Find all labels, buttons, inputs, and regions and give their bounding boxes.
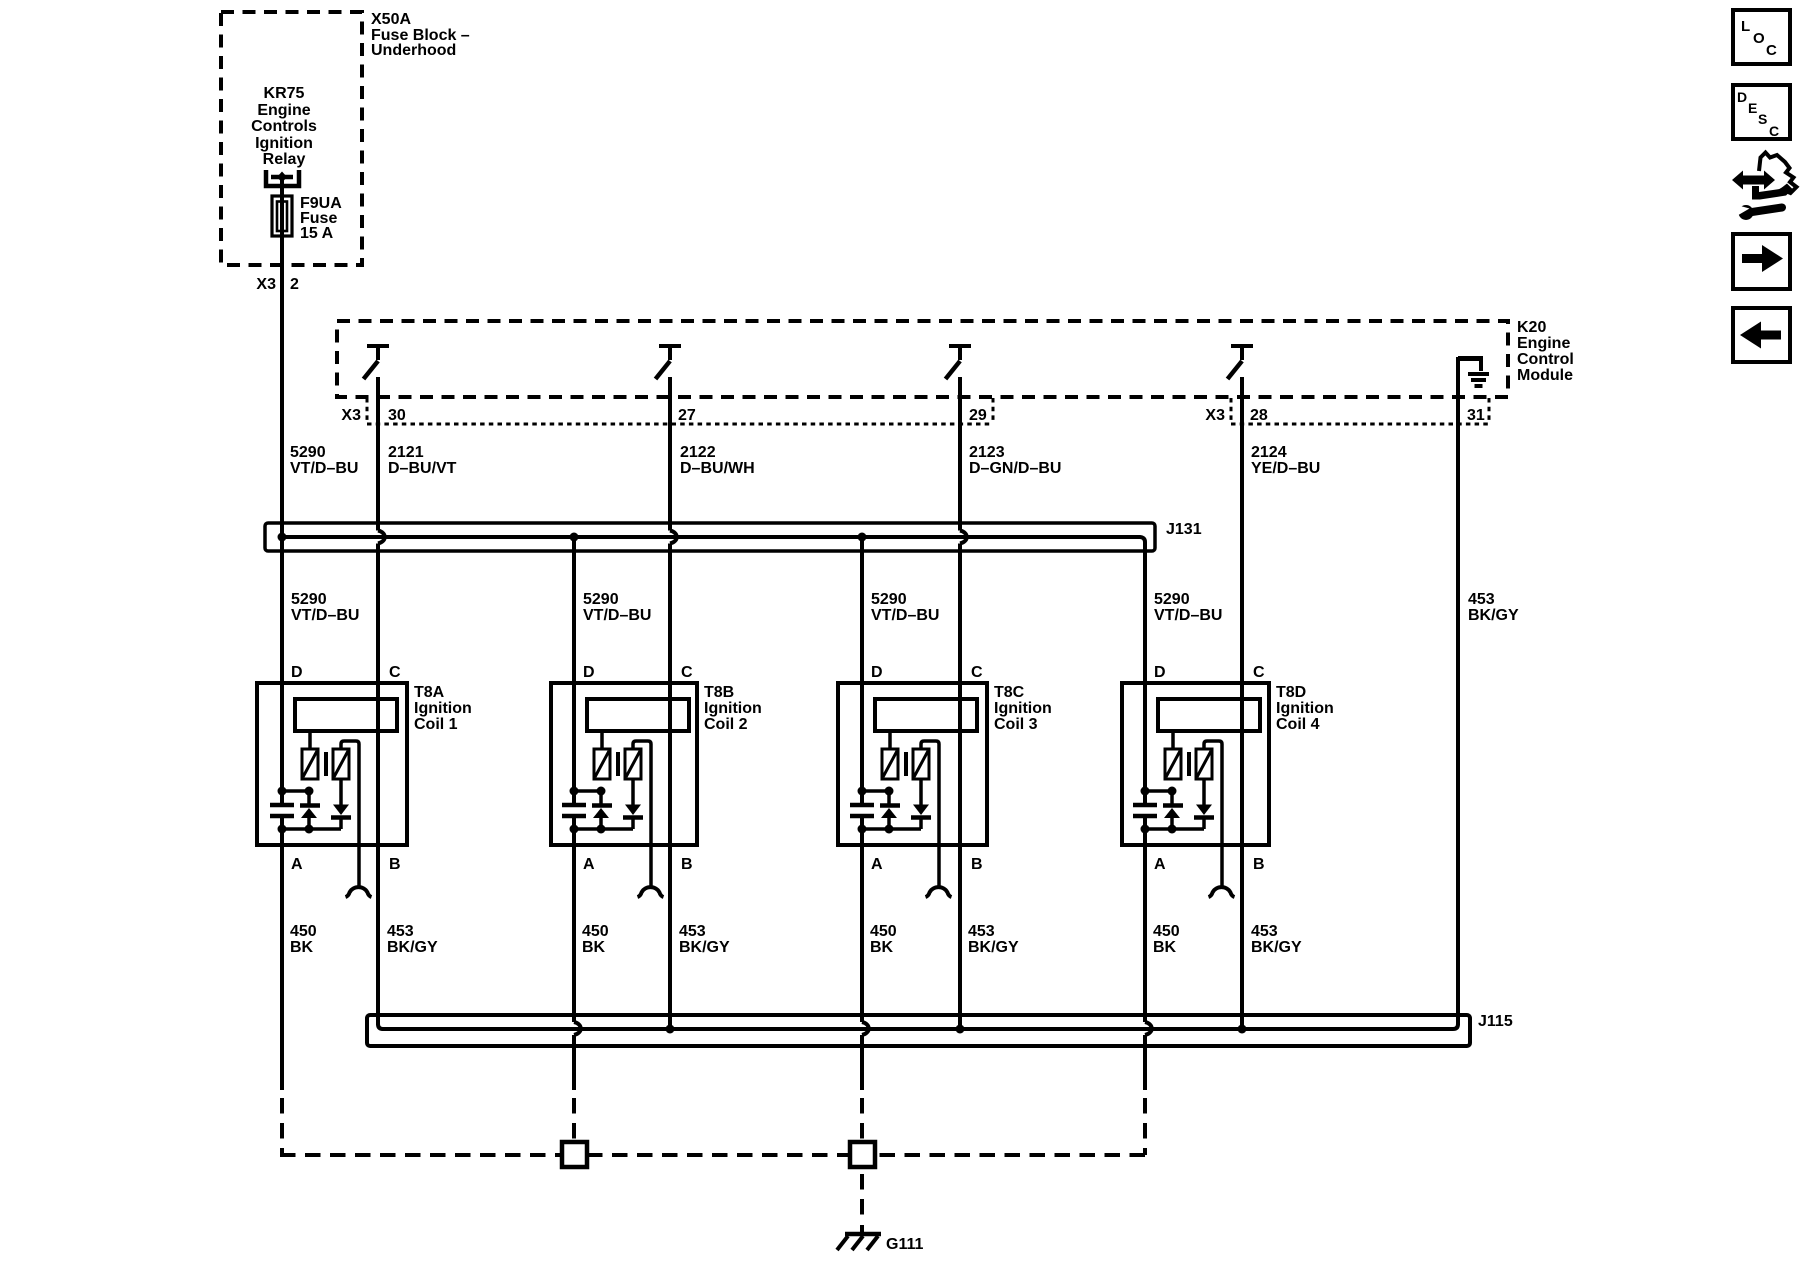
junction block at coil T8C ground rail: [850, 1142, 875, 1167]
svg-text:Module: Module: [1517, 367, 1573, 384]
hop of wire 450 T8C over splice J115: [862, 1022, 869, 1035]
svg-text:450: 450: [870, 923, 897, 940]
svg-text:D–BU/VT: D–BU/VT: [388, 460, 457, 477]
junction dot J115 coil T8B ground: [666, 1025, 675, 1034]
svg-text:S: S: [1758, 111, 1767, 127]
svg-text:B: B: [681, 856, 693, 873]
coil T8A zener diode up: [300, 791, 320, 829]
svg-text:5290: 5290: [1154, 591, 1190, 608]
ignition coil T8A box: [257, 683, 407, 845]
hop of wire 2123 over splice J131: [960, 531, 967, 544]
label T8D Ignition Coil 4: [1276, 684, 1334, 733]
svg-text:2124: 2124: [1251, 444, 1287, 461]
label T8A Ignition Coil 1: [414, 684, 472, 733]
svg-text:453: 453: [679, 923, 706, 940]
svg-text:D: D: [1154, 664, 1166, 681]
coil T8C primary winding block: [875, 699, 977, 731]
svg-text:Ignition: Ignition: [1276, 700, 1334, 717]
coil T8D internal wire primary to resistors: [1171, 731, 1175, 749]
svg-text:T8C: T8C: [994, 684, 1025, 701]
coil T8A resistor right: [333, 749, 349, 779]
junction dot J131 at coil T8B feed: [570, 533, 579, 542]
coil T8A secondary output wire to spark gap: [341, 741, 359, 886]
coil T8B junction dots upper rail: [570, 787, 606, 796]
label 450 BK (coil T8C): [870, 923, 897, 956]
wire 450 BK coil T8D pin A down: [1143, 818, 1147, 1022]
svg-text:Underhood: Underhood: [371, 42, 456, 59]
coil T8D primary winding block: [1158, 699, 1260, 731]
icon button back arrow: [1733, 308, 1790, 362]
coil T8A core bar: [324, 752, 328, 776]
coil T8B junction dots lower rail: [570, 825, 634, 834]
coil T8A diode down: [331, 779, 351, 829]
label 2123 D-GN/D-BU: [969, 444, 1061, 477]
svg-text:Ignition: Ignition: [994, 700, 1052, 717]
label 5290 VT/D-BU (coil feed): [291, 591, 359, 624]
wire 453 BK/GY from ECM pin 31 down to splice J115: [1458, 359, 1481, 1025]
label 450 BK (coil T8A): [290, 923, 317, 956]
ignition coil T8C box: [838, 683, 987, 845]
ECM internal ground at pin 31: [1458, 358, 1489, 386]
svg-text:BK: BK: [582, 939, 606, 956]
svg-text:Ignition: Ignition: [704, 700, 762, 717]
coil T8B diode down: [623, 779, 643, 829]
svg-text:VT/D–BU: VT/D–BU: [871, 607, 939, 624]
svg-text:D: D: [583, 664, 595, 681]
svg-text:A: A: [871, 856, 883, 873]
coil T8D spark plug gap arc: [1209, 887, 1235, 897]
coil T8D diode down: [1194, 779, 1214, 829]
svg-text:B: B: [1253, 856, 1265, 873]
splice J115 bus wire 453 to ECM ground pin 31: [378, 544, 1458, 1030]
svg-text:31: 31: [1467, 407, 1485, 424]
svg-text:27: 27: [678, 407, 696, 424]
svg-text:D: D: [1737, 89, 1747, 105]
svg-text:VT/D–BU: VT/D–BU: [291, 607, 359, 624]
svg-text:X50A: X50A: [371, 11, 411, 28]
coil T8C zener diode up: [880, 791, 900, 829]
splice pack J115 box: [367, 1015, 1470, 1046]
svg-text:A: A: [1154, 856, 1166, 873]
svg-text:X3: X3: [256, 276, 276, 293]
wire 2122 D-BU/WH from ECM pin 27 to coil T8B pin C: [668, 377, 672, 531]
coil T8B internal wire primary to resistors: [600, 731, 604, 749]
svg-text:450: 450: [290, 923, 317, 940]
pin labels X3 30 27 29 X3 28 31: [341, 407, 1484, 424]
label 453 BK/GY (coil T8A): [387, 923, 438, 956]
junction block at coil T8B ground rail: [562, 1142, 587, 1167]
svg-text:2122: 2122: [680, 444, 716, 461]
connector X3 bracket right (pins 28 31): [1231, 398, 1489, 424]
svg-text:VT/D–BU: VT/D–BU: [290, 460, 358, 477]
coil T8C internal wire primary to resistors: [888, 731, 892, 749]
coil T8B resistor right: [625, 749, 641, 779]
svg-text:VT/D–BU: VT/D–BU: [1154, 607, 1222, 624]
coil T8C resistor left: [882, 749, 898, 779]
wire 5290 VT/D-BU splice J131 to coil T8C pin D: [860, 537, 864, 803]
svg-text:Controls: Controls: [251, 118, 317, 135]
svg-text:D–GN/D–BU: D–GN/D–BU: [969, 460, 1061, 477]
ECM driver switch for pin 30: [364, 346, 390, 379]
svg-text:5290: 5290: [871, 591, 907, 608]
svg-text:BK/GY: BK/GY: [387, 939, 438, 956]
svg-text:C: C: [681, 664, 693, 681]
ECM driver switch for pin 27: [656, 346, 682, 379]
ignition coil T8B box: [551, 683, 697, 845]
wire 450 BK coil T8D dashed ground run: [1143, 1098, 1147, 1155]
wire 450 BK coil T8B pin A down: [572, 818, 576, 1022]
svg-text:O: O: [1753, 30, 1765, 47]
svg-text:Relay: Relay: [263, 151, 306, 168]
svg-text:15 A: 15 A: [300, 225, 334, 242]
label X50A Fuse Block - Underhood: [371, 11, 470, 59]
coil T8C capacitor: [850, 805, 874, 816]
ignition coil T8D box: [1122, 683, 1269, 845]
svg-text:Control: Control: [1517, 351, 1574, 368]
svg-text:D: D: [871, 664, 883, 681]
label 5290 VT/D-BU (coil feed): [583, 591, 651, 624]
coil T8C spark plug gap arc: [926, 887, 952, 897]
svg-text:453: 453: [1251, 923, 1278, 940]
svg-text:Coil 4: Coil 4: [1276, 716, 1320, 733]
hop of wire 450 T8D over splice J115: [1145, 1022, 1152, 1035]
svg-text:450: 450: [1153, 923, 1180, 940]
label F9UA Fuse 15 A: [300, 195, 342, 242]
svg-text:T8D: T8D: [1276, 684, 1306, 701]
junction dot J131 at coil T8A feed: [278, 533, 287, 542]
svg-text:J131: J131: [1166, 521, 1202, 538]
svg-text:Engine: Engine: [1517, 335, 1570, 352]
svg-text:30: 30: [388, 407, 406, 424]
wire 5290 VT/D-BU splice J131 to coil T8B pin D: [572, 537, 576, 803]
coil T8A capacitor: [270, 805, 294, 816]
coil T8A junction dots lower rail: [278, 825, 342, 834]
label 5290 VT/D-BU (coil feed): [871, 591, 939, 624]
svg-text:28: 28: [1250, 407, 1268, 424]
dashed ground rail to G111: [280, 1153, 1145, 1157]
coil T8B resistor left: [594, 749, 610, 779]
svg-text:453: 453: [968, 923, 995, 940]
fuse block X50A dashed box: [221, 12, 362, 265]
connector label X3 pin 2 at fuse block: [256, 276, 299, 293]
svg-text:Coil 1: Coil 1: [414, 716, 458, 733]
svg-text:A: A: [291, 856, 303, 873]
svg-text:2123: 2123: [969, 444, 1005, 461]
coil T8D junction dots upper rail: [1141, 787, 1177, 796]
svg-text:C: C: [1769, 123, 1779, 139]
label 453 BK/GY (coil T8D): [1251, 923, 1302, 956]
junction dot J115 coil T8D ground: [1238, 1025, 1247, 1034]
label 453 BK/GY (ECM ground wire): [1468, 591, 1519, 624]
svg-text:5290: 5290: [290, 444, 326, 461]
coil T8D junction dots lower rail: [1141, 825, 1205, 834]
fuse F9UA 15A symbol: [272, 196, 292, 236]
coil T8D resistor left: [1165, 749, 1181, 779]
svg-text:D: D: [291, 664, 303, 681]
svg-text:Coil 2: Coil 2: [704, 716, 748, 733]
label T8B Ignition Coil 2: [704, 684, 762, 733]
svg-text:BK/GY: BK/GY: [679, 939, 730, 956]
label 5290 VT/D-BU (fuse output): [290, 444, 358, 477]
svg-text:K20: K20: [1517, 319, 1546, 336]
svg-text:Engine: Engine: [257, 102, 310, 119]
wire 2124 YE/D-BU from ECM pin 28 to coil T8D pin C: [1240, 377, 1244, 1029]
wire 450 BK coil T8A dashed ground run: [280, 1098, 284, 1155]
svg-text:T8B: T8B: [704, 684, 734, 701]
coil T8B spark plug gap arc: [638, 887, 664, 897]
svg-text:G111: G111: [886, 1236, 923, 1253]
coil T8C core bar: [904, 752, 908, 776]
svg-text:453: 453: [387, 923, 414, 940]
svg-text:2121: 2121: [388, 444, 424, 461]
svg-text:BK: BK: [290, 939, 314, 956]
coil T8A primary winding block: [295, 699, 397, 731]
svg-text:Ignition: Ignition: [255, 135, 313, 152]
svg-text:BK: BK: [870, 939, 894, 956]
coil T8B capacitor: [562, 805, 586, 816]
svg-text:J115: J115: [1478, 1013, 1513, 1030]
svg-text:2: 2: [290, 276, 299, 293]
svg-text:C: C: [1766, 42, 1777, 59]
junction dot J115 coil T8C ground: [956, 1025, 965, 1034]
svg-text:X3: X3: [341, 407, 361, 424]
coil T8C resistor right: [913, 749, 929, 779]
coil T8D zener diode up: [1163, 791, 1183, 829]
relay KR75 contact symbol: [266, 170, 299, 196]
label 453 BK/GY (coil T8B): [679, 923, 730, 956]
label 2121 D-BU/VT: [388, 444, 457, 477]
hop of wire 2121 over splice J131: [378, 531, 385, 544]
wire 450 BK coil T8C pin A down: [860, 818, 864, 1022]
coil T8C diode down: [911, 779, 931, 829]
label 2122 D-BU/WH: [680, 444, 755, 477]
coil T8A internal wire primary to resistors: [308, 731, 312, 749]
label 450 BK (coil T8B): [582, 923, 609, 956]
coil T8B secondary output wire to spark gap: [633, 741, 651, 886]
svg-text:BK: BK: [1153, 939, 1177, 956]
ECM driver switch for pin 28: [1228, 346, 1254, 379]
engine control module K20 dashed box: [337, 321, 1508, 397]
icon button next arrow: [1733, 234, 1790, 289]
coil T8B core bar: [616, 752, 620, 776]
label KR75 Engine Controls Ignition Relay: [251, 85, 317, 168]
svg-text:C: C: [971, 664, 983, 681]
svg-text:5290: 5290: [583, 591, 619, 608]
svg-text:Ignition: Ignition: [414, 700, 472, 717]
svg-text:C: C: [1253, 664, 1265, 681]
svg-text:A: A: [583, 856, 595, 873]
svg-text:BK/GY: BK/GY: [1251, 939, 1302, 956]
hop of wire 450 T8B over splice J115: [574, 1022, 581, 1035]
svg-text:E: E: [1748, 100, 1757, 116]
label 453 BK/GY (coil T8C): [968, 923, 1019, 956]
coil T8C junction dots upper rail: [858, 787, 894, 796]
coil T8C junction dots lower rail: [858, 825, 922, 834]
wire 2121 D-BU/VT from ECM pin 30 to coil T8A pin C: [376, 377, 380, 531]
coil T8A resistor left: [302, 749, 318, 779]
icon swap with wrench: [1732, 153, 1797, 221]
label K20 Engine Control Module: [1517, 319, 1574, 384]
svg-text:B: B: [389, 856, 401, 873]
wire 5290 VT/D-BU from fuse F9UA down to splice J131 and coil T8A pin D: [280, 196, 284, 803]
svg-text:5290: 5290: [291, 591, 327, 608]
label 450 BK (coil T8D): [1153, 923, 1180, 956]
svg-text:Coil 3: Coil 3: [994, 716, 1038, 733]
ground G111 symbol: [837, 1225, 881, 1250]
svg-text:C: C: [389, 664, 401, 681]
svg-text:D–BU/WH: D–BU/WH: [680, 460, 755, 477]
ECM driver switch for pin 29: [946, 346, 972, 379]
wire 450 BK coil T8C dashed ground run: [860, 1098, 864, 1142]
coil T8D core bar: [1187, 752, 1191, 776]
coil T8D resistor right: [1196, 749, 1212, 779]
coil T8B primary winding block: [587, 699, 689, 731]
wire 450 BK coil T8B dashed ground run: [572, 1098, 576, 1142]
svg-text:X3: X3: [1205, 407, 1225, 424]
coil T8C secondary output wire to spark gap: [921, 741, 939, 886]
svg-text:VT/D–BU: VT/D–BU: [583, 607, 651, 624]
coil T8B zener diode up: [592, 791, 612, 829]
coil T8D secondary output wire to spark gap: [1204, 741, 1222, 886]
svg-text:YE/D–BU: YE/D–BU: [1251, 460, 1320, 477]
splice J131 bus wire 5290 to all coil D pins: [282, 537, 1145, 803]
svg-text:29: 29: [969, 407, 987, 424]
svg-text:B: B: [971, 856, 983, 873]
label 2124 YE/D-BU: [1251, 444, 1320, 477]
coil T8A spark plug gap arc: [346, 887, 372, 897]
hop of wire 2122 over splice J131: [670, 531, 677, 544]
svg-text:453: 453: [1468, 591, 1495, 608]
wire 450 BK coil T8A pin A down: [280, 818, 284, 1090]
connector X3 bracket left (pins 30 27 29): [367, 398, 993, 424]
coil T8A junction dots upper rail: [278, 787, 314, 796]
label 5290 VT/D-BU (coil feed): [1154, 591, 1222, 624]
splice pack J131 box: [265, 523, 1155, 551]
icon button DESC: [1733, 85, 1790, 139]
label T8C Ignition Coil 3: [994, 684, 1052, 733]
svg-text:450: 450: [582, 923, 609, 940]
wire 2123 D-GN/D-BU from ECM pin 29 to coil T8C pin C: [958, 377, 962, 531]
coil T8D capacitor: [1133, 805, 1157, 816]
junction dot J131 at coil T8C feed: [858, 533, 867, 542]
svg-text:T8A: T8A: [414, 684, 445, 701]
svg-text:BK/GY: BK/GY: [1468, 607, 1519, 624]
dashed wire junction block to ground G111: [860, 1174, 864, 1219]
icon button LOC: [1733, 10, 1790, 64]
svg-text:KR75: KR75: [264, 85, 305, 102]
svg-text:BK/GY: BK/GY: [968, 939, 1019, 956]
svg-text:L: L: [1741, 18, 1750, 35]
